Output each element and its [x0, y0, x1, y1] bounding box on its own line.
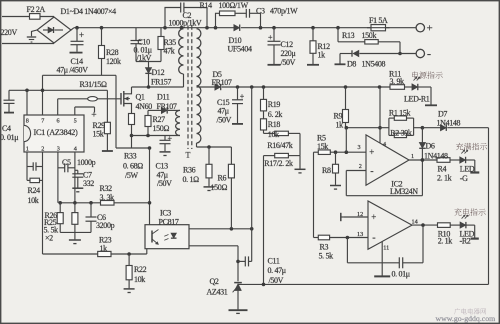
svg-text:C11: C11 [268, 256, 280, 265]
svg-text:8: 8 [26, 118, 29, 125]
svg-text:150Ω: 150Ω [211, 183, 228, 192]
svg-text:R2 39k: R2 39k [390, 128, 412, 137]
svg-text:T: T [186, 151, 191, 160]
svg-text:+: + [91, 111, 96, 121]
svg-text:0. 01μ: 0. 01μ [0, 133, 18, 142]
svg-text:/50V: /50V [157, 179, 172, 188]
svg-text:150Ω: 150Ω [153, 124, 170, 133]
svg-text:FR107: FR107 [212, 78, 232, 87]
svg-text:D1~D4 1N4007×4: D1~D4 1N4007×4 [61, 7, 117, 16]
svg-text:3. 3k: 3. 3k [100, 193, 115, 202]
svg-text:+: + [371, 212, 376, 222]
svg-text:220μ: 220μ [281, 49, 296, 58]
svg-text:IC3: IC3 [160, 208, 171, 217]
svg-text:R22: R22 [134, 265, 147, 274]
svg-text:2: 2 [359, 163, 362, 170]
svg-text:-: - [372, 233, 375, 244]
svg-text:R3: R3 [320, 243, 329, 252]
svg-text:1k: 1k [318, 51, 326, 60]
svg-text:10k: 10k [268, 130, 279, 139]
svg-text:R9: R9 [334, 112, 343, 121]
svg-text:15k: 15k [93, 130, 104, 139]
svg-text:×2: ×2 [45, 234, 53, 243]
svg-text:/5W: /5W [125, 171, 139, 180]
svg-text:-: - [370, 166, 373, 177]
svg-text:R36: R36 [183, 166, 196, 175]
svg-text:R31/15Ω: R31/15Ω [80, 80, 107, 89]
svg-text:R4: R4 [438, 164, 447, 173]
svg-text:LED: LED [460, 164, 475, 173]
svg-text:R16/47k: R16/47k [267, 141, 292, 150]
svg-text:14: 14 [412, 218, 418, 225]
svg-text:5. 5k: 5. 5k [319, 251, 334, 260]
svg-text:PC817: PC817 [159, 217, 179, 226]
svg-text:D7: D7 [438, 110, 447, 119]
svg-text:11: 11 [383, 244, 389, 251]
svg-text:+: + [369, 147, 374, 157]
svg-text:5: 5 [74, 118, 77, 125]
svg-text:1000p: 1000p [77, 158, 96, 167]
svg-text:10k: 10k [134, 275, 145, 284]
svg-text:47μ: 47μ [157, 170, 168, 179]
svg-text:7: 7 [41, 118, 44, 125]
svg-text:R18: R18 [268, 120, 281, 129]
svg-text:D11: D11 [157, 93, 170, 102]
svg-text:Q1: Q1 [136, 93, 145, 102]
svg-text:LM324N: LM324N [390, 187, 418, 196]
svg-text:332: 332 [83, 179, 94, 188]
svg-text:10k: 10k [28, 196, 39, 205]
svg-text:-G: -G [460, 174, 468, 183]
svg-text:1N4148: 1N4148 [437, 118, 461, 127]
svg-text:Q2: Q2 [210, 277, 219, 286]
svg-text:6. 2k: 6. 2k [268, 110, 283, 119]
svg-text:/50V: /50V [217, 116, 232, 125]
svg-text:LED-R1: LED-R1 [404, 94, 430, 103]
svg-text:15k: 15k [317, 142, 328, 151]
svg-text:D8: D8 [347, 60, 356, 69]
svg-text:D6: D6 [426, 142, 435, 151]
svg-text:C3: C3 [256, 7, 265, 16]
svg-text:4N60: 4N60 [136, 102, 153, 111]
svg-text:47μ /450V: 47μ /450V [57, 66, 89, 75]
svg-text:C12: C12 [281, 40, 294, 49]
svg-text:4: 4 [383, 141, 386, 148]
svg-text:www.go-gddq.com: www.go-gddq.com [436, 314, 496, 323]
svg-text:2: 2 [41, 145, 44, 152]
svg-text:FR157: FR157 [151, 77, 171, 86]
svg-text:1: 1 [26, 145, 29, 152]
svg-text:120k: 120k [106, 57, 121, 66]
svg-text:R8: R8 [322, 166, 331, 175]
svg-text:3: 3 [358, 144, 361, 151]
svg-text:220V: 220V [1, 28, 18, 37]
svg-text:+: + [79, 30, 84, 40]
svg-text:+: + [268, 33, 273, 42]
svg-text:6: 6 [57, 118, 60, 125]
svg-text:0. 1Ω: 0. 1Ω [183, 175, 200, 184]
svg-text:470p/1W: 470p/1W [270, 7, 298, 16]
svg-text:1N5408: 1N5408 [362, 60, 386, 69]
svg-text:2. 1k: 2. 1k [438, 236, 453, 245]
svg-text:+: + [427, 23, 433, 35]
svg-text:47k: 47k [164, 46, 175, 55]
svg-text:C13: C13 [156, 162, 169, 171]
svg-text:3. 9k: 3. 9k [390, 77, 405, 86]
svg-text:R13: R13 [342, 31, 355, 40]
svg-text:R27: R27 [153, 115, 166, 124]
svg-text:R33: R33 [124, 152, 137, 161]
svg-text:R17/2. 2k: R17/2. 2k [264, 159, 293, 168]
svg-text:1N4148: 1N4148 [424, 151, 448, 160]
svg-text:C4: C4 [2, 124, 11, 133]
svg-text:F1 5A: F1 5A [369, 16, 388, 25]
svg-text:0. 01μ: 0. 01μ [392, 269, 410, 278]
svg-text:/50V: /50V [269, 276, 284, 285]
svg-text:R6: R6 [218, 173, 227, 182]
svg-text:F2 2A: F2 2A [27, 5, 46, 14]
svg-text:1k: 1k [100, 244, 108, 253]
svg-text:R28: R28 [106, 48, 119, 57]
svg-text:FR107: FR107 [157, 102, 177, 111]
svg-text:R14: R14 [200, 1, 213, 10]
svg-text:1k: 1k [336, 120, 344, 129]
svg-text:AZ431: AZ431 [207, 287, 228, 296]
svg-text:-: - [427, 47, 431, 61]
svg-text:UF5404: UF5404 [228, 45, 252, 54]
svg-text:R1 15k: R1 15k [389, 109, 411, 118]
svg-text:3: 3 [57, 145, 60, 152]
svg-text:1000p/1kV: 1000p/1kV [169, 19, 202, 28]
svg-text:100Ω/1W: 100Ω/1W [219, 1, 249, 10]
svg-text:0. 47μ: 0. 47μ [268, 266, 286, 275]
svg-text:C5: C5 [62, 158, 71, 167]
svg-text:R19: R19 [268, 100, 281, 109]
svg-text:/50V: /50V [281, 58, 296, 67]
svg-text:R24: R24 [28, 186, 41, 195]
svg-text:+: + [168, 134, 173, 143]
svg-text:-R2: -R2 [460, 236, 471, 245]
svg-text:2. 1k: 2. 1k [437, 173, 452, 182]
svg-text:47μ: 47μ [218, 107, 229, 116]
svg-text:4: 4 [74, 145, 77, 152]
svg-text:0. 68Ω: 0. 68Ω [123, 161, 143, 170]
svg-text:150k: 150k [362, 31, 377, 40]
svg-text:1: 1 [411, 153, 414, 160]
svg-text:R32: R32 [100, 184, 113, 193]
svg-text:/1kV: /1kV [137, 53, 152, 62]
svg-text:D12: D12 [152, 68, 165, 77]
svg-text:C14: C14 [71, 57, 84, 66]
svg-text:3200p: 3200p [96, 221, 115, 230]
svg-text:IC1 (AZ3842): IC1 (AZ3842) [34, 128, 79, 137]
